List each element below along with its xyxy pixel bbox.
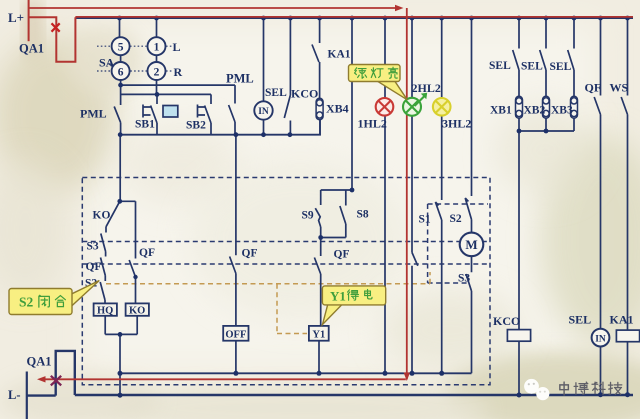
svg-text:XB4: XB4 <box>326 102 349 116</box>
svg-text:QA1: QA1 <box>19 42 44 56</box>
svg-text:1HL2: 1HL2 <box>358 116 387 130</box>
svg-text:SA: SA <box>99 56 115 70</box>
svg-text:S9: S9 <box>302 210 314 222</box>
svg-text:XB2: XB2 <box>524 104 546 116</box>
svg-text:L+: L+ <box>8 10 24 25</box>
svg-text:L-: L- <box>8 388 21 402</box>
svg-text:L: L <box>173 40 181 54</box>
svg-text:2HL2: 2HL2 <box>412 81 441 95</box>
svg-text:5: 5 <box>118 42 124 54</box>
svg-text:S3: S3 <box>87 241 99 253</box>
svg-text:R: R <box>174 65 183 79</box>
svg-text:KO: KO <box>129 306 145 317</box>
svg-text:HQ: HQ <box>97 306 113 317</box>
svg-text:6: 6 <box>118 66 124 78</box>
svg-text:S3: S3 <box>458 273 470 285</box>
svg-text:S2: S2 <box>19 295 34 310</box>
svg-text:QF: QF <box>334 249 350 261</box>
svg-text:KCO: KCO <box>291 87 318 101</box>
svg-text:XB3: XB3 <box>551 104 573 116</box>
svg-text:QF: QF <box>139 247 155 259</box>
svg-text:SB1: SB1 <box>135 119 155 131</box>
svg-text:Y1: Y1 <box>330 289 346 304</box>
svg-text:OFF: OFF <box>225 330 246 341</box>
svg-text:3HL2: 3HL2 <box>442 116 471 130</box>
svg-text:S1: S1 <box>419 214 431 226</box>
svg-text:S8: S8 <box>357 208 369 220</box>
svg-text:KA1: KA1 <box>610 313 634 327</box>
svg-text:S2: S2 <box>450 213 462 225</box>
svg-text:SEL: SEL <box>265 87 287 99</box>
svg-text:PML: PML <box>226 72 254 86</box>
svg-text:QF: QF <box>86 261 102 273</box>
svg-text:XB1: XB1 <box>490 104 512 116</box>
svg-text:M: M <box>465 237 477 252</box>
svg-text:SEL: SEL <box>550 61 572 73</box>
svg-text:QA1: QA1 <box>27 355 52 369</box>
svg-text:IN: IN <box>258 107 269 117</box>
svg-text:1: 1 <box>154 42 160 54</box>
svg-text:Y1: Y1 <box>312 330 325 341</box>
svg-text:2: 2 <box>154 66 160 78</box>
svg-text:KA1: KA1 <box>328 49 351 61</box>
svg-text:KCO: KCO <box>493 314 520 328</box>
svg-text:IN: IN <box>595 334 606 344</box>
svg-text:KO: KO <box>93 210 111 222</box>
svg-text:QF: QF <box>585 81 602 95</box>
svg-text:WS: WS <box>610 81 629 95</box>
svg-text:PML: PML <box>80 107 107 121</box>
svg-text:SEL: SEL <box>569 313 592 327</box>
svg-text:QF: QF <box>242 248 258 260</box>
svg-text:SEL: SEL <box>521 61 543 73</box>
svg-text:SB2: SB2 <box>186 120 206 132</box>
svg-text:SEL: SEL <box>489 60 511 72</box>
